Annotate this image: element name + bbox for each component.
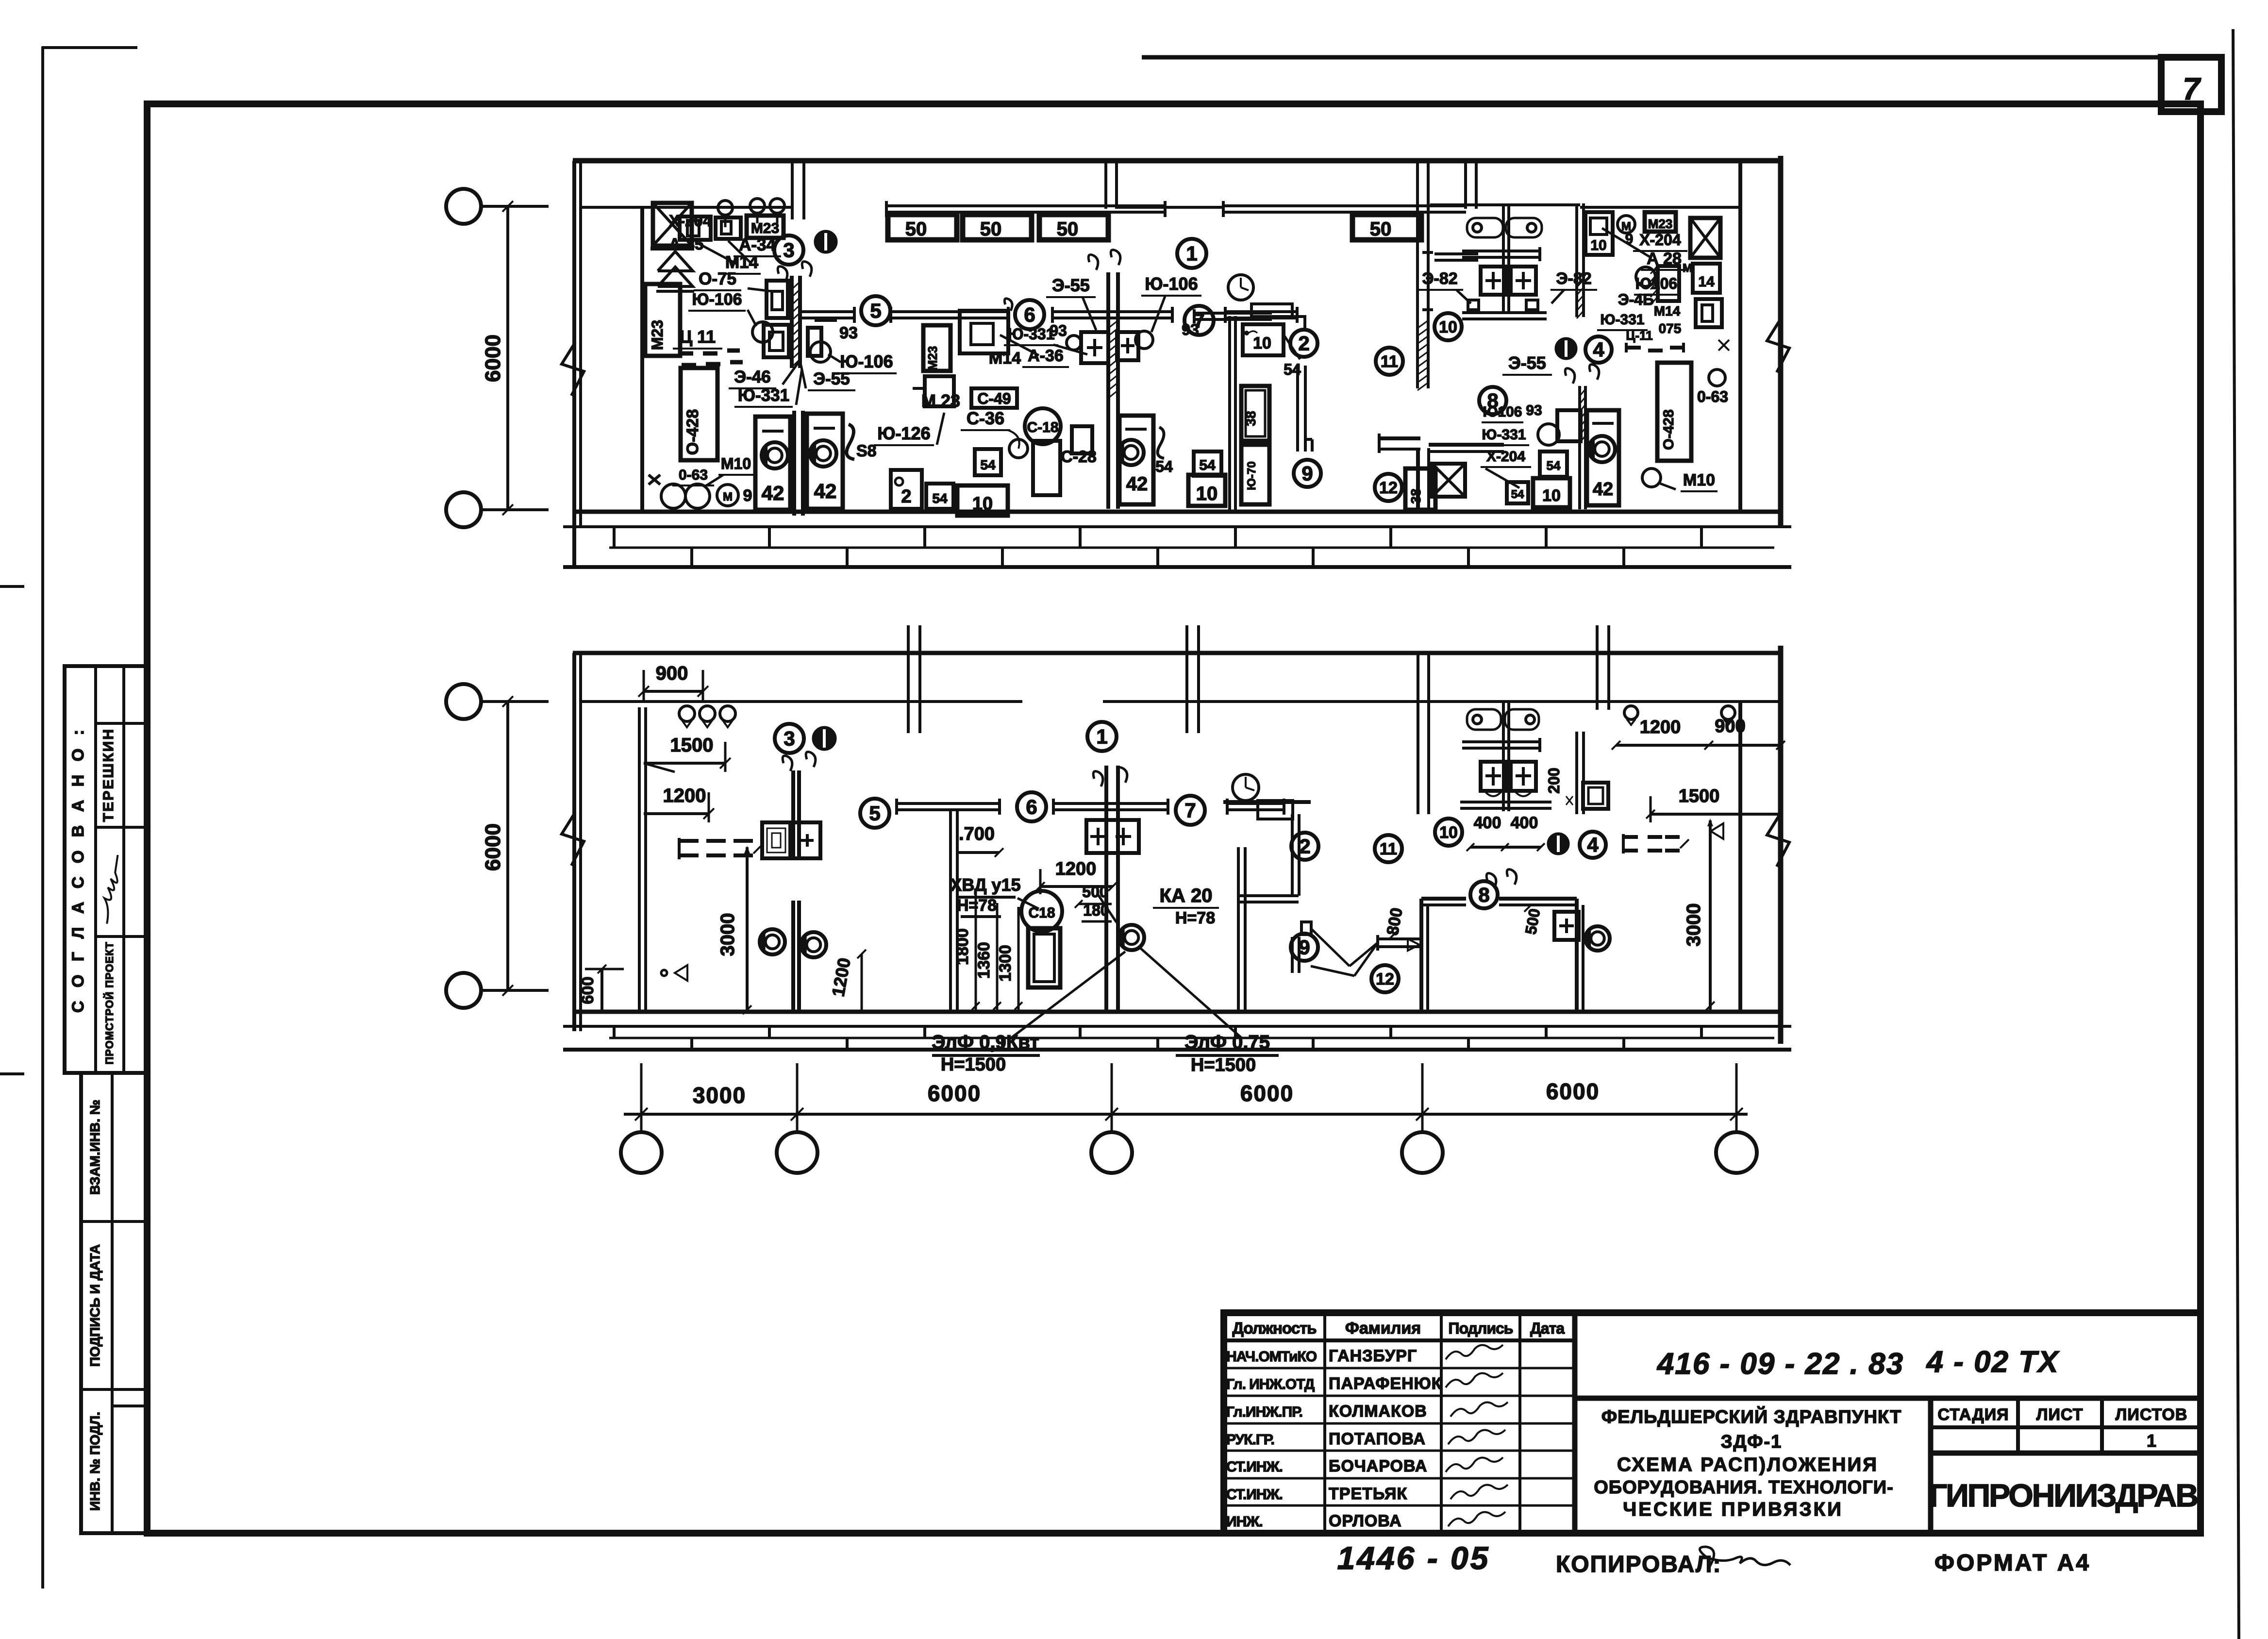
svg-text:М23: М23 [925, 346, 940, 371]
wc pans lower [1481, 762, 1506, 791]
svg-text:416 - 09 - 22 . 83: 416 - 09 - 22 . 83 [1656, 1347, 1904, 1381]
svg-text:93: 93 [1182, 321, 1199, 338]
upper plan: top exterior wall outer line [573, 158, 1781, 164]
svg-text:6000: 6000 [1240, 1081, 1294, 1106]
upper plan: corridor wall bars [800, 310, 854, 313]
warning triangle symbols [658, 251, 693, 271]
svg-text:50: 50 [1057, 218, 1079, 240]
sheet number box [2161, 57, 2221, 112]
bed dashed lower right [1623, 835, 1638, 839]
partition right of room10 [1575, 203, 1578, 317]
shelf box room7 [1251, 304, 1292, 317]
svg-text:X-204: X-204 [1639, 231, 1681, 249]
svg-text:1360: 1360 [975, 942, 993, 979]
svg-text:Дата: Дата [1530, 1320, 1565, 1337]
bathroom lower cistern plates [1467, 709, 1501, 730]
svg-text:C-49: C-49 [977, 390, 1011, 407]
svg-text:О-428: О-428 [1661, 409, 1677, 450]
svg-text:400: 400 [1511, 814, 1538, 832]
room number 2 upper [1290, 330, 1317, 357]
titleblock divider v [1928, 1398, 1934, 1533]
room number 4 lower [1580, 832, 1606, 858]
svg-text:3000: 3000 [1683, 903, 1704, 947]
svg-text:БОЧАРОВА: БОЧАРОВА [1329, 1457, 1427, 1475]
room8 lower walls [1421, 897, 1466, 901]
svg-text:М10: М10 [721, 455, 751, 472]
svg-text:6000: 6000 [481, 823, 505, 871]
clock symbol lower [1233, 774, 1259, 801]
room number 6 upper [1015, 300, 1044, 329]
signature КОЛМАКОВ [1451, 1402, 1508, 1417]
svg-text:Ц 11: Ц 11 [680, 327, 716, 347]
box right room6 [1072, 426, 1092, 453]
svg-text:ТРЕТЬЯК: ТРЕТЬЯК [1329, 1485, 1407, 1503]
symbols bottom room3 [661, 484, 685, 508]
partitions lower room2/9 [1237, 847, 1240, 1012]
scan edge top-left tick [42, 46, 137, 49]
room number 2 lower [1291, 833, 1318, 860]
leader Ю-331b [796, 369, 802, 405]
svg-text:500: 500 [1082, 883, 1108, 901]
room number 7 lower [1176, 796, 1205, 825]
partition mid room10 [1502, 205, 1505, 314]
svg-text:ПРОМСТРОЙ ПРОЕКТ: ПРОМСТРОЙ ПРОЕКТ [103, 941, 116, 1064]
signature ГАНЗБУРГ [1446, 1345, 1503, 1359]
personnel table [1572, 1313, 1578, 1533]
svg-text:1200: 1200 [1055, 859, 1097, 879]
svg-text:Гл.ИНЖ.ПР.: Гл.ИНЖ.ПР. [1226, 1404, 1302, 1420]
svg-text:12: 12 [1379, 479, 1398, 497]
svg-text:Гл. ИНЖ.ОТД: Гл. ИНЖ.ОТД [1226, 1376, 1315, 1392]
svg-text:9: 9 [743, 486, 752, 505]
svg-text:8: 8 [1478, 884, 1489, 906]
room number 8 lower [1470, 881, 1498, 908]
svg-text:М23: М23 [751, 220, 779, 236]
10 box mid [957, 485, 1008, 516]
svg-text:ЛИСТОВ: ЛИСТОВ [2116, 1405, 2188, 1424]
svg-text:0-63: 0-63 [1697, 388, 1728, 405]
tap bottom-left lower [675, 965, 687, 981]
lower plan: pier stub a [907, 625, 910, 733]
upper plan: plinth band [563, 525, 1791, 528]
signature ПАРАФЕНЮК [1446, 1373, 1503, 1388]
svg-text:38: 38 [1408, 488, 1423, 503]
sink boxes at axis3 pier [1081, 332, 1108, 363]
box small room6 [925, 376, 954, 406]
svg-text:42: 42 [1593, 479, 1613, 500]
svg-text:М 23: М 23 [921, 391, 960, 411]
room number 3 upper [774, 235, 803, 265]
axis 3 tick and circle [1111, 1063, 1113, 1131]
lower plan: axis circle A bottom [446, 973, 481, 1008]
svg-text:ГАНЗБУРГ: ГАНЗБУРГ [1329, 1347, 1417, 1365]
svg-text:.700: .700 [959, 824, 995, 844]
svg-text:3000: 3000 [717, 913, 738, 956]
54 box near2 [926, 484, 953, 509]
break symbol right wall upper [1767, 319, 1789, 372]
svg-text:СХЕМА РАСП)ЛОЖЕНИЯ: СХЕМА РАСП)ЛОЖЕНИЯ [1617, 1454, 1878, 1475]
svg-text:КОЛМАКОВ: КОЛМАКОВ [1329, 1402, 1427, 1421]
54 box room7a [1194, 452, 1221, 476]
room number 11 lower [1375, 835, 1402, 862]
circled M symbol [1618, 216, 1635, 233]
svg-text:С О Г Л А С О В А Н О :: С О Г Л А С О В А Н О : [69, 725, 87, 1013]
svg-text:Ц-11: Ц-11 [1626, 328, 1652, 343]
М23 vertical box room6 [923, 325, 951, 371]
shelf room7 [1194, 312, 1272, 315]
svg-text:Ю-331: Ю-331 [1482, 427, 1526, 443]
lower plan: corridor wall bars [897, 802, 1000, 805]
svg-text:ХВД у15: ХВД у15 [950, 875, 1020, 895]
svg-text:ЭлФ 0.75: ЭлФ 0.75 [1184, 1032, 1270, 1053]
svg-text:10: 10 [1253, 334, 1271, 352]
upper plan: window sill lines 1 [886, 204, 1165, 207]
svg-text:200: 200 [1545, 768, 1563, 793]
door jamb room3 [790, 276, 794, 368]
towel bar room10 [1462, 250, 1540, 252]
svg-text:5: 5 [870, 300, 881, 322]
door squiggle lower room3 b [806, 752, 816, 767]
svg-text:54: 54 [1155, 458, 1173, 475]
svg-text:Ю-331: Ю-331 [1601, 312, 1645, 328]
sink circle room8 [1538, 424, 1559, 445]
room8 wall horizontal [1379, 436, 1420, 440]
box device room4 [1696, 299, 1722, 327]
svg-text:50: 50 [1370, 218, 1392, 240]
position marker upper left [815, 231, 836, 252]
svg-text:6000: 6000 [1546, 1079, 1600, 1104]
door squiggle room8 lower b [1507, 870, 1517, 885]
М23 tall box left [645, 284, 680, 356]
radiator 50 #1 [888, 215, 957, 240]
stage/sheet header [1931, 1425, 2201, 1429]
bottom axis dimension line [624, 1113, 1748, 1116]
position marker lower right [1548, 834, 1568, 854]
tap circle room6 [1008, 430, 1019, 449]
О-428 couch room4 [1657, 363, 1691, 461]
upper plan: window sill lines 2 [1223, 204, 1466, 207]
dashed couch symbol lower [679, 839, 699, 843]
svg-text:42: 42 [762, 482, 784, 504]
room number 10 upper [1434, 313, 1462, 340]
svg-text:3: 3 [784, 727, 795, 750]
break symbol left wall lower [562, 812, 584, 866]
break symbol right wall lower [1767, 813, 1789, 867]
box device b [716, 217, 741, 239]
hook 58 room3 [847, 424, 854, 459]
svg-text:А-34: А-34 [739, 235, 776, 254]
М10 circle room4 [1642, 468, 1661, 487]
leader room12 [1354, 943, 1378, 976]
wash basin cluster room3 [752, 322, 773, 342]
svg-text:Ю-331: Ю-331 [1007, 325, 1054, 343]
54 box mid [975, 449, 1001, 475]
door leaf room2 [1296, 366, 1299, 452]
position marker upper right [1556, 338, 1576, 359]
upper plan: axis circle A top [446, 189, 481, 224]
С-18 boiler room6 [1025, 408, 1061, 444]
wc pans room10 [1481, 267, 1506, 295]
svg-text:О-428: О-428 [684, 409, 702, 455]
lower plan: plinth band [563, 1025, 1791, 1028]
svg-text:М10: М10 [1683, 471, 1715, 489]
О-75 device box room3 [767, 281, 788, 318]
svg-text:ИНВ. № ПОДЛ.: ИНВ. № ПОДЛ. [87, 1412, 102, 1511]
room number 7 upper [1184, 306, 1214, 335]
svg-text:C18: C18 [1028, 905, 1055, 921]
svg-text:42: 42 [1126, 473, 1148, 495]
door squiggle lower room3 a [783, 756, 792, 771]
М23 label box top [747, 216, 784, 238]
washer pair room3 [755, 417, 790, 510]
svg-text:10: 10 [1439, 823, 1458, 842]
М23 box room4 [1645, 212, 1676, 232]
38 box room7 [1241, 386, 1269, 441]
svg-text:5: 5 [869, 802, 880, 825]
partition right bathroom lower [1575, 732, 1578, 814]
svg-text:54: 54 [1547, 458, 1561, 473]
radiator 50 #2 [963, 215, 1032, 240]
shelf lower room7 [1223, 800, 1311, 804]
svg-text:Э-55: Э-55 [1508, 353, 1546, 373]
sink unit lower room3 [762, 822, 790, 858]
svg-text:ЛИСТ: ЛИСТ [2036, 1405, 2084, 1424]
shelf box lower room7 [1258, 801, 1293, 819]
svg-text:Ю-106: Ю-106 [840, 351, 893, 371]
clock symbol room7 upper [1228, 275, 1253, 300]
svg-text:4 - 02 ТХ: 4 - 02 ТХ [1926, 1345, 2060, 1379]
svg-text:9: 9 [1301, 462, 1313, 485]
svg-text:7: 7 [2183, 71, 2201, 106]
svg-text:Н=78: Н=78 [1175, 909, 1215, 927]
svg-text:075: 075 [1659, 321, 1682, 336]
svg-text:14: 14 [1698, 274, 1715, 290]
vent box room8 [1432, 464, 1465, 497]
svg-text:ЭлФ 0,9Квт: ЭлФ 0,9Квт [932, 1032, 1039, 1053]
О-428 couch room3 [681, 368, 717, 460]
upper plan: pier axis2 [791, 161, 794, 219]
svg-text:ИНЖ.: ИНЖ. [1226, 1514, 1263, 1530]
vent X-box room4 [1690, 218, 1720, 258]
svg-text:C-18: C-18 [1027, 419, 1058, 435]
svg-text:ОБОРУДОВАНИЯ. ТЕХНОЛОГИ-: ОБОРУДОВАНИЯ. ТЕХНОЛОГИ- [1594, 1477, 1893, 1498]
lower plan: top wall inner face [581, 700, 1022, 703]
svg-text:1500: 1500 [670, 735, 714, 756]
svg-text:11: 11 [1381, 352, 1398, 371]
room number 6 lower [1017, 792, 1046, 821]
door jamb hatch room10 [1417, 320, 1428, 328]
svg-text:1: 1 [1186, 242, 1197, 265]
svg-text:50: 50 [905, 218, 927, 240]
svg-text:900: 900 [656, 663, 688, 684]
svg-text:Ю106: Ю106 [1483, 404, 1522, 420]
svg-text:1: 1 [1096, 725, 1107, 748]
svg-text:М: М [1683, 262, 1692, 275]
signature after КОПИРОВАЛ [1700, 1547, 1790, 1568]
washer room8 lower [1585, 926, 1610, 951]
svg-text:Должность: Должность [1232, 1319, 1316, 1337]
svg-text:ЧЕСКИЕ ПРИВЯЗКИ: ЧЕСКИЕ ПРИВЯЗКИ [1623, 1499, 1843, 1520]
upper plan: right exterior wall [1778, 156, 1784, 527]
svg-text:54: 54 [1199, 457, 1216, 473]
42 washer room8 [1587, 410, 1619, 505]
svg-text:10: 10 [1196, 483, 1218, 504]
room number 8 upper [1479, 387, 1506, 414]
lower plan: top exterior wall [573, 651, 1781, 655]
svg-text:50: 50 [980, 218, 1002, 240]
leader b [728, 241, 750, 262]
svg-text:1300: 1300 [996, 945, 1015, 982]
svg-text:10: 10 [1439, 318, 1457, 336]
dim 3000 lower-left [746, 847, 749, 1010]
washer circles lower room3 [760, 929, 785, 954]
room number 12 upper [1375, 474, 1402, 501]
svg-text:ФЕЛЬДШЕРСКИЙ ЗДРАВПУНКТ: ФЕЛЬДШЕРСКИЙ ЗДРАВПУНКТ [1601, 1405, 1902, 1427]
svg-text:ПАРАФЕНЮК: ПАРАФЕНЮК [1329, 1374, 1442, 1393]
room number 4 upper [1585, 336, 1612, 363]
svg-text:2: 2 [1299, 835, 1310, 858]
svg-text:Э-82: Э-82 [1422, 269, 1457, 288]
taps room8 [1565, 368, 1575, 384]
axis 1 tick and circle [640, 1063, 643, 1131]
dashes symbol room4 [1626, 346, 1641, 350]
svg-text:Н=1500: Н=1500 [1191, 1055, 1256, 1075]
pipe hook room7 [1292, 317, 1305, 329]
room number 1 upper [1177, 239, 1206, 268]
partition stub door lower room3 [791, 770, 795, 859]
washer lower mid [1119, 925, 1144, 950]
upper plan: pier axis3b window [1464, 161, 1467, 209]
svg-text:54: 54 [1511, 488, 1524, 501]
dashed fixture row [679, 351, 693, 356]
lamp circles top [718, 201, 733, 215]
room number 3 lower [775, 724, 804, 753]
margin tick left b [0, 1072, 24, 1075]
leader О-75 [748, 288, 772, 291]
bottom boxes room8 [1507, 482, 1528, 503]
room number 9 lower [1291, 934, 1318, 961]
svg-text:Ю-106: Ю-106 [1145, 274, 1198, 294]
door swing squiggles room5 [1088, 255, 1098, 270]
О-63 room4 [1709, 369, 1725, 386]
leader Ю-106b [828, 354, 841, 362]
svg-text:КОПИРОВАЛ:: КОПИРОВАЛ: [1556, 1552, 1722, 1577]
signature squiggle sidebar [91, 855, 133, 924]
position marker lower left [813, 727, 835, 750]
svg-text:ЗДФ-1: ЗДФ-1 [1721, 1432, 1783, 1452]
tick on wall room10 b [1422, 308, 1433, 311]
svg-text:М14: М14 [989, 349, 1021, 368]
svg-text:4: 4 [1593, 338, 1604, 361]
tap lower right [1711, 823, 1723, 839]
svg-text:1800: 1800 [953, 928, 972, 965]
leader a [695, 242, 738, 265]
lower plan: bottom wall [574, 1010, 1781, 1014]
svg-text:НАЧ.ОМТиКО: НАЧ.ОМТиКО [1226, 1349, 1317, 1365]
svg-text:КА 20: КА 20 [1160, 885, 1213, 906]
Ю-70 box room7 [1241, 445, 1269, 504]
svg-text:400: 400 [1474, 814, 1501, 832]
svg-text:6000: 6000 [928, 1081, 981, 1106]
lower plan: pier stub c [1596, 625, 1599, 710]
svg-text:Э-55: Э-55 [813, 369, 850, 388]
svg-text:ПОДПИСЬ И ДАТА: ПОДПИСЬ И ДАТА [87, 1244, 102, 1367]
svg-text:1: 1 [2147, 1431, 2156, 1451]
38 tall box room8 [1405, 468, 1435, 510]
svg-text:Фамилия: Фамилия [1345, 1319, 1421, 1338]
svg-text:10: 10 [1542, 486, 1561, 505]
plus box room8 lower [1554, 912, 1579, 940]
signature ТРЕТЬЯК [1451, 1485, 1508, 1499]
room number 9 upper [1294, 460, 1321, 487]
tap K room4 [1718, 340, 1729, 351]
radiator 50 #3 [1039, 215, 1108, 240]
svg-text:2: 2 [901, 486, 911, 507]
lamps lower right [1624, 706, 1638, 719]
room number 11 upper [1376, 348, 1403, 375]
upper plan: bottom wall [574, 510, 1781, 514]
10 box room7b [1188, 475, 1225, 506]
svg-text:М23: М23 [1648, 217, 1673, 231]
svg-text:93: 93 [839, 324, 858, 342]
svg-text:3: 3 [783, 239, 794, 262]
svg-text:12: 12 [1376, 970, 1394, 988]
lower plan: left exterior wall [572, 653, 576, 1031]
room number 5 upper [861, 296, 890, 325]
door squiggle room8 lower a [1486, 873, 1496, 888]
room number 1 lower [1087, 722, 1117, 751]
svg-text:А-36: А-36 [1028, 347, 1064, 365]
upper plan: partition axis4 room10 [1416, 161, 1419, 388]
svg-text:600: 600 [579, 977, 597, 1004]
axis 2 tick and circle [796, 1063, 799, 1131]
svg-text:Ю-70: Ю-70 [1245, 461, 1258, 490]
svg-text:ТЕРЕШКИН: ТЕРЕШКИН [100, 728, 117, 822]
svg-text:10: 10 [972, 494, 993, 514]
radiator 50 #4 [1352, 215, 1421, 240]
svg-text:Э-82: Э-82 [1556, 269, 1591, 288]
room number 12 lower [1371, 965, 1399, 992]
svg-text:7: 7 [1184, 799, 1196, 822]
title block outline [1224, 1313, 2201, 1533]
М14 box room4 [1693, 264, 1720, 293]
upper plan: top wall inner face segments [581, 206, 792, 209]
lower plan: central pier axis3 [1104, 766, 1108, 1011]
lower plan: partition mid-left [949, 810, 952, 1011]
main drawing frame [147, 104, 2201, 1533]
10 box room7 [1243, 324, 1284, 355]
svg-text:Ю-331: Ю-331 [738, 386, 789, 405]
vent box X top-left [653, 203, 692, 246]
signature БОЧАРОВА [1446, 1457, 1503, 1472]
svg-text:Н=1500: Н=1500 [941, 1054, 1006, 1075]
washer 42 room6 [1119, 416, 1153, 504]
partition room8 right a [1578, 386, 1581, 509]
svg-text:93: 93 [1526, 402, 1542, 418]
lower plan: left axis dim 6000 [506, 702, 509, 990]
10 box room4 [1585, 212, 1613, 255]
svg-text:54: 54 [980, 457, 996, 472]
svg-text:10: 10 [1590, 237, 1606, 253]
svg-text:6: 6 [1024, 303, 1035, 326]
titleblock divider h [1575, 1396, 2201, 1401]
svg-text:Ю-106: Ю-106 [692, 290, 742, 309]
svg-text:СТ.ИНЖ.: СТ.ИНЖ. [1226, 1487, 1283, 1503]
svg-text:ПОТАПОВА: ПОТАПОВА [1329, 1430, 1426, 1448]
svg-text:РУК.ГР.: РУК.ГР. [1226, 1432, 1274, 1448]
svg-text:С-36: С-36 [967, 408, 1004, 428]
scan edge right [2233, 29, 2239, 1639]
